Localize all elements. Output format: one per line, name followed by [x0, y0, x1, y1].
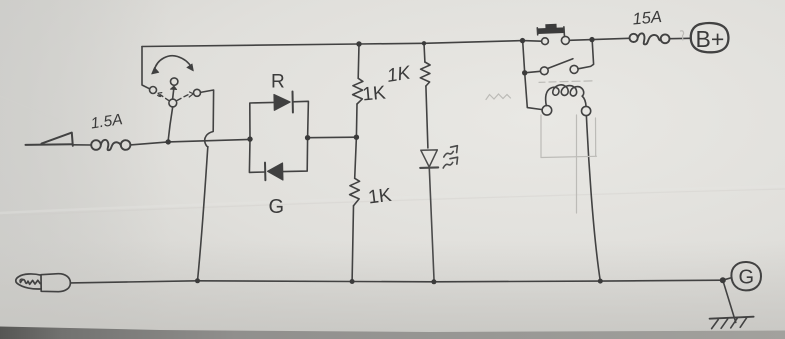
fuse F1 1.5A	[91, 140, 130, 150]
resistor R2 1K	[420, 62, 430, 86]
svg-text:G: G	[739, 267, 755, 289]
svg-text:1K: 1K	[367, 185, 393, 209]
wire: top rail B+ net	[142, 41, 541, 47]
connector lug (left input)	[26, 133, 73, 146]
terminal B+	[691, 23, 729, 52]
wire: fuse to B+	[670, 37, 691, 39]
resistor rail 2 with LED	[423, 43, 426, 62]
terminal G	[723, 262, 761, 290]
fuse F2 1.5A	[630, 33, 670, 44]
wire: drop to rotary left contact	[142, 47, 150, 89]
diode R (points right)	[274, 92, 293, 113]
diode G (points left)	[265, 163, 283, 181]
wire: drop from B+ net to relay contact	[523, 43, 525, 73]
svg-text:B+: B+	[696, 26, 725, 52]
wire: bottom ground rail	[71, 280, 723, 283]
svg-text:R: R	[271, 72, 285, 93]
pushbutton SW1	[537, 26, 569, 45]
resistor R1 1K	[353, 78, 363, 104]
wire: mid rail	[73, 144, 91, 146]
LED D3	[420, 150, 438, 282]
svg-text:15A: 15A	[632, 8, 663, 28]
wire: mid rail from diode pack to 1K rail	[308, 136, 357, 139]
svg-text:1K: 1K	[362, 83, 387, 106]
ground symbol	[710, 280, 754, 328]
wire: hop drop to bottom rail	[198, 147, 208, 281]
wire: rotary right contact down with hop over mid rail	[201, 90, 214, 147]
wire: wiper drop to mid rail	[168, 107, 173, 140]
svg-text:1K: 1K	[385, 62, 413, 87]
svg-text:G: G	[269, 196, 285, 218]
diode pack (R/G anti-parallel)	[249, 101, 308, 172]
relay coil K1	[525, 76, 591, 116]
rotation arc arrow	[152, 56, 194, 74]
LED emission arrows	[443, 146, 457, 168]
rotary switch S1	[150, 78, 201, 107]
resistor rail 1 (two 1K in series)	[357, 44, 360, 78]
wire: relay rail to bottom	[586, 116, 600, 281]
faint pencil marks	[486, 31, 684, 213]
relay contact switch	[527, 42, 593, 74]
alligator clip (left)	[16, 274, 71, 292]
resistor R3 1K	[350, 178, 360, 206]
